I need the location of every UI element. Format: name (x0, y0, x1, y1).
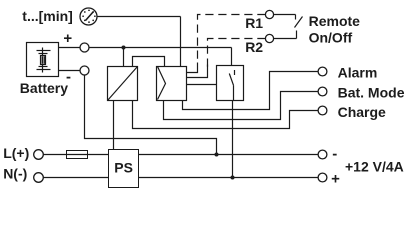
svg-text:R1: R1 (245, 15, 263, 31)
svg-text:Alarm: Alarm (338, 65, 378, 81)
svg-text:Charge: Charge (338, 104, 386, 120)
svg-text:-: - (66, 68, 71, 85)
svg-text:Remote: Remote (309, 13, 361, 29)
svg-text:+: + (63, 30, 72, 47)
svg-text:PS: PS (114, 160, 133, 176)
svg-text:+: + (331, 171, 340, 188)
svg-text:R2: R2 (245, 39, 263, 55)
svg-text:N(-): N(-) (3, 166, 27, 182)
svg-text:On/Off: On/Off (309, 29, 353, 45)
svg-text:Battery: Battery (20, 80, 68, 96)
svg-text:+12 V/4A: +12 V/4A (345, 159, 404, 175)
svg-text:L(+): L(+) (3, 145, 29, 161)
svg-text:Bat. Mode: Bat. Mode (338, 84, 405, 100)
svg-text:t...[min]: t...[min] (22, 8, 73, 24)
svg-text:-: - (332, 145, 337, 162)
